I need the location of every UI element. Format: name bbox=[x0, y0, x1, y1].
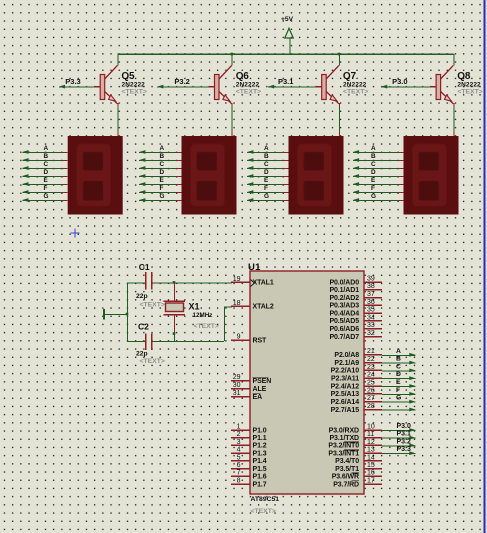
svg-text:G: G bbox=[44, 193, 49, 200]
svg-text:P1.4: P1.4 bbox=[253, 458, 267, 465]
svg-text:<TEXT>: <TEXT> bbox=[343, 88, 368, 95]
svg-text:37: 37 bbox=[367, 291, 375, 298]
svg-text:B: B bbox=[396, 356, 401, 363]
svg-text:19: 19 bbox=[233, 276, 241, 283]
svg-text:E: E bbox=[44, 177, 49, 184]
svg-text:P1.2: P1.2 bbox=[253, 443, 267, 450]
svg-text:A: A bbox=[160, 145, 165, 152]
svg-text:P0.2/AD2: P0.2/AD2 bbox=[329, 295, 359, 302]
svg-text:XTAL2: XTAL2 bbox=[253, 304, 274, 311]
svg-text:35: 35 bbox=[367, 307, 375, 314]
svg-text:5: 5 bbox=[237, 454, 241, 461]
svg-text:P3.3/INT1: P3.3/INT1 bbox=[328, 451, 359, 458]
svg-text:C: C bbox=[160, 161, 165, 168]
svg-text:39: 39 bbox=[367, 275, 375, 282]
svg-text:Q5: Q5 bbox=[121, 71, 135, 82]
svg-text:21: 21 bbox=[367, 348, 375, 355]
svg-text:PSEN: PSEN bbox=[253, 378, 272, 385]
svg-text:<TEXT>: <TEXT> bbox=[122, 88, 147, 95]
svg-text:G: G bbox=[371, 193, 376, 200]
svg-text:X1: X1 bbox=[189, 302, 200, 312]
svg-text:P2.6/A14: P2.6/A14 bbox=[331, 399, 360, 406]
svg-text:30: 30 bbox=[233, 382, 241, 389]
svg-text:3: 3 bbox=[237, 439, 241, 446]
svg-text:C: C bbox=[44, 161, 49, 168]
svg-text:28: 28 bbox=[367, 403, 375, 410]
svg-text:D: D bbox=[264, 169, 269, 176]
svg-text:F: F bbox=[264, 185, 268, 192]
svg-text:Q7: Q7 bbox=[343, 71, 357, 82]
svg-text:P3.0/RXD: P3.0/RXD bbox=[329, 427, 359, 434]
svg-text:P0.4/AD4: P0.4/AD4 bbox=[329, 311, 359, 318]
svg-text:9: 9 bbox=[237, 333, 241, 340]
svg-text:C: C bbox=[264, 161, 269, 168]
svg-text:4: 4 bbox=[237, 447, 241, 454]
svg-text:31: 31 bbox=[233, 390, 241, 397]
svg-text:<TEXT>: <TEXT> bbox=[457, 88, 482, 95]
svg-text:P3.2: P3.2 bbox=[174, 77, 189, 86]
svg-text:XTAL1: XTAL1 bbox=[253, 280, 274, 287]
svg-text:E: E bbox=[371, 177, 376, 184]
svg-text:P2.2/A10: P2.2/A10 bbox=[331, 368, 360, 375]
svg-text:P0.0/AD0: P0.0/AD0 bbox=[329, 279, 359, 286]
svg-text:G: G bbox=[264, 193, 269, 200]
svg-text:P3.4/T0: P3.4/T0 bbox=[335, 458, 359, 465]
svg-text:1: 1 bbox=[237, 423, 241, 430]
svg-text:F: F bbox=[160, 185, 164, 192]
svg-text:34: 34 bbox=[367, 314, 375, 321]
svg-text:P3.5/T1: P3.5/T1 bbox=[335, 466, 359, 473]
svg-text:7: 7 bbox=[237, 470, 241, 477]
svg-text:P0.1/AD1: P0.1/AD1 bbox=[329, 287, 359, 294]
svg-text:ALE: ALE bbox=[253, 386, 267, 393]
svg-text:P3.3: P3.3 bbox=[397, 446, 412, 453]
svg-text:B: B bbox=[160, 153, 165, 160]
svg-text:A: A bbox=[396, 348, 401, 355]
svg-text:D: D bbox=[371, 169, 376, 176]
svg-text:P3.2/INT0: P3.2/INT0 bbox=[328, 443, 359, 450]
svg-text:P3.1: P3.1 bbox=[278, 77, 293, 86]
svg-text:C1: C1 bbox=[139, 262, 150, 272]
svg-text:D: D bbox=[396, 371, 401, 378]
svg-text:P1.0: P1.0 bbox=[253, 427, 267, 434]
svg-text:<TEXT>: <TEXT> bbox=[236, 88, 261, 95]
svg-text:P3.1/TXD: P3.1/TXD bbox=[329, 435, 359, 442]
svg-text:RST: RST bbox=[253, 337, 268, 344]
svg-text:P3.3: P3.3 bbox=[65, 77, 80, 86]
svg-text:P2.4/A12: P2.4/A12 bbox=[331, 383, 360, 390]
svg-text:P1.7: P1.7 bbox=[253, 481, 267, 488]
svg-text:D: D bbox=[44, 169, 49, 176]
svg-text:22p: 22p bbox=[136, 293, 148, 300]
svg-text:8: 8 bbox=[237, 477, 241, 484]
svg-text:26: 26 bbox=[367, 387, 375, 394]
svg-text:E: E bbox=[396, 379, 401, 386]
svg-text:+5V: +5V bbox=[281, 16, 294, 23]
svg-text:16: 16 bbox=[367, 470, 375, 477]
svg-text:32: 32 bbox=[367, 330, 375, 337]
svg-text:18: 18 bbox=[233, 300, 241, 307]
svg-text:P3.2: P3.2 bbox=[397, 438, 412, 445]
svg-text:22: 22 bbox=[367, 356, 375, 363]
svg-text:P3.0: P3.0 bbox=[392, 77, 407, 86]
svg-text:C: C bbox=[396, 363, 401, 370]
svg-text:P2.1/A9: P2.1/A9 bbox=[334, 360, 359, 367]
svg-text:29: 29 bbox=[233, 374, 241, 381]
svg-text:<TEXT>: <TEXT> bbox=[251, 508, 276, 515]
svg-text:P3.6/WR: P3.6/WR bbox=[332, 474, 359, 481]
svg-text:13: 13 bbox=[367, 447, 375, 454]
svg-text:6: 6 bbox=[237, 462, 241, 469]
svg-text:24: 24 bbox=[367, 372, 375, 379]
svg-text:G: G bbox=[160, 193, 165, 200]
svg-text:33: 33 bbox=[367, 322, 375, 329]
svg-text:G: G bbox=[396, 395, 401, 402]
svg-text:P2.0/A8: P2.0/A8 bbox=[334, 352, 359, 359]
svg-text:27: 27 bbox=[367, 395, 375, 402]
svg-text:P1.5: P1.5 bbox=[253, 466, 267, 473]
svg-text:P2.3/A11: P2.3/A11 bbox=[331, 376, 359, 383]
svg-text:P3.0: P3.0 bbox=[397, 423, 412, 430]
svg-text:Q8: Q8 bbox=[457, 71, 471, 82]
svg-text:P3.7/RD: P3.7/RD bbox=[333, 481, 359, 488]
svg-text:B: B bbox=[264, 153, 269, 160]
svg-text:P0.7/AD7: P0.7/AD7 bbox=[329, 334, 359, 341]
svg-text:A: A bbox=[44, 145, 49, 152]
svg-text:P1.3: P1.3 bbox=[253, 451, 267, 458]
svg-text:15: 15 bbox=[367, 462, 375, 469]
svg-text:F: F bbox=[396, 387, 400, 394]
svg-text:B: B bbox=[371, 153, 376, 160]
svg-text:<TEXT>: <TEXT> bbox=[194, 323, 219, 330]
svg-text:A: A bbox=[371, 145, 376, 152]
svg-text:P0.6/AD6: P0.6/AD6 bbox=[329, 326, 359, 333]
svg-text:23: 23 bbox=[367, 364, 375, 371]
svg-text:AT89C51: AT89C51 bbox=[251, 496, 280, 503]
svg-text:E: E bbox=[160, 177, 165, 184]
svg-text:P1.6: P1.6 bbox=[253, 474, 267, 481]
svg-text:17: 17 bbox=[367, 477, 375, 484]
svg-text:36: 36 bbox=[367, 299, 375, 306]
svg-text:C2: C2 bbox=[138, 322, 149, 332]
svg-text:P0.5/AD5: P0.5/AD5 bbox=[329, 318, 359, 325]
svg-text:A: A bbox=[264, 145, 269, 152]
svg-text:F: F bbox=[371, 185, 375, 192]
svg-text:F: F bbox=[44, 185, 48, 192]
svg-text:10: 10 bbox=[367, 423, 375, 430]
svg-text:<TEXT>: <TEXT> bbox=[140, 358, 165, 365]
svg-text:EA: EA bbox=[253, 394, 263, 401]
svg-text:U1: U1 bbox=[248, 262, 261, 273]
svg-text:22p: 22p bbox=[136, 351, 148, 358]
svg-text:P3.1: P3.1 bbox=[397, 431, 412, 438]
svg-text:Q6: Q6 bbox=[236, 71, 250, 82]
svg-text:12MHz: 12MHz bbox=[193, 312, 213, 319]
svg-text:25: 25 bbox=[367, 379, 375, 386]
svg-text:D: D bbox=[160, 169, 165, 176]
svg-text:P2.5/A13: P2.5/A13 bbox=[331, 391, 360, 398]
svg-text:2: 2 bbox=[237, 431, 241, 438]
svg-text:B: B bbox=[44, 153, 49, 160]
svg-text:<TEXT>: <TEXT> bbox=[140, 302, 165, 309]
svg-text:E: E bbox=[264, 177, 269, 184]
svg-text:P2.7/A15: P2.7/A15 bbox=[331, 407, 360, 414]
svg-text:14: 14 bbox=[367, 454, 375, 461]
svg-text:C: C bbox=[371, 161, 376, 168]
svg-text:38: 38 bbox=[367, 283, 375, 290]
svg-text:11: 11 bbox=[367, 431, 374, 438]
svg-text:P1.1: P1.1 bbox=[253, 435, 267, 442]
svg-text:12: 12 bbox=[367, 439, 375, 446]
svg-text:P0.3/AD3: P0.3/AD3 bbox=[329, 303, 359, 310]
